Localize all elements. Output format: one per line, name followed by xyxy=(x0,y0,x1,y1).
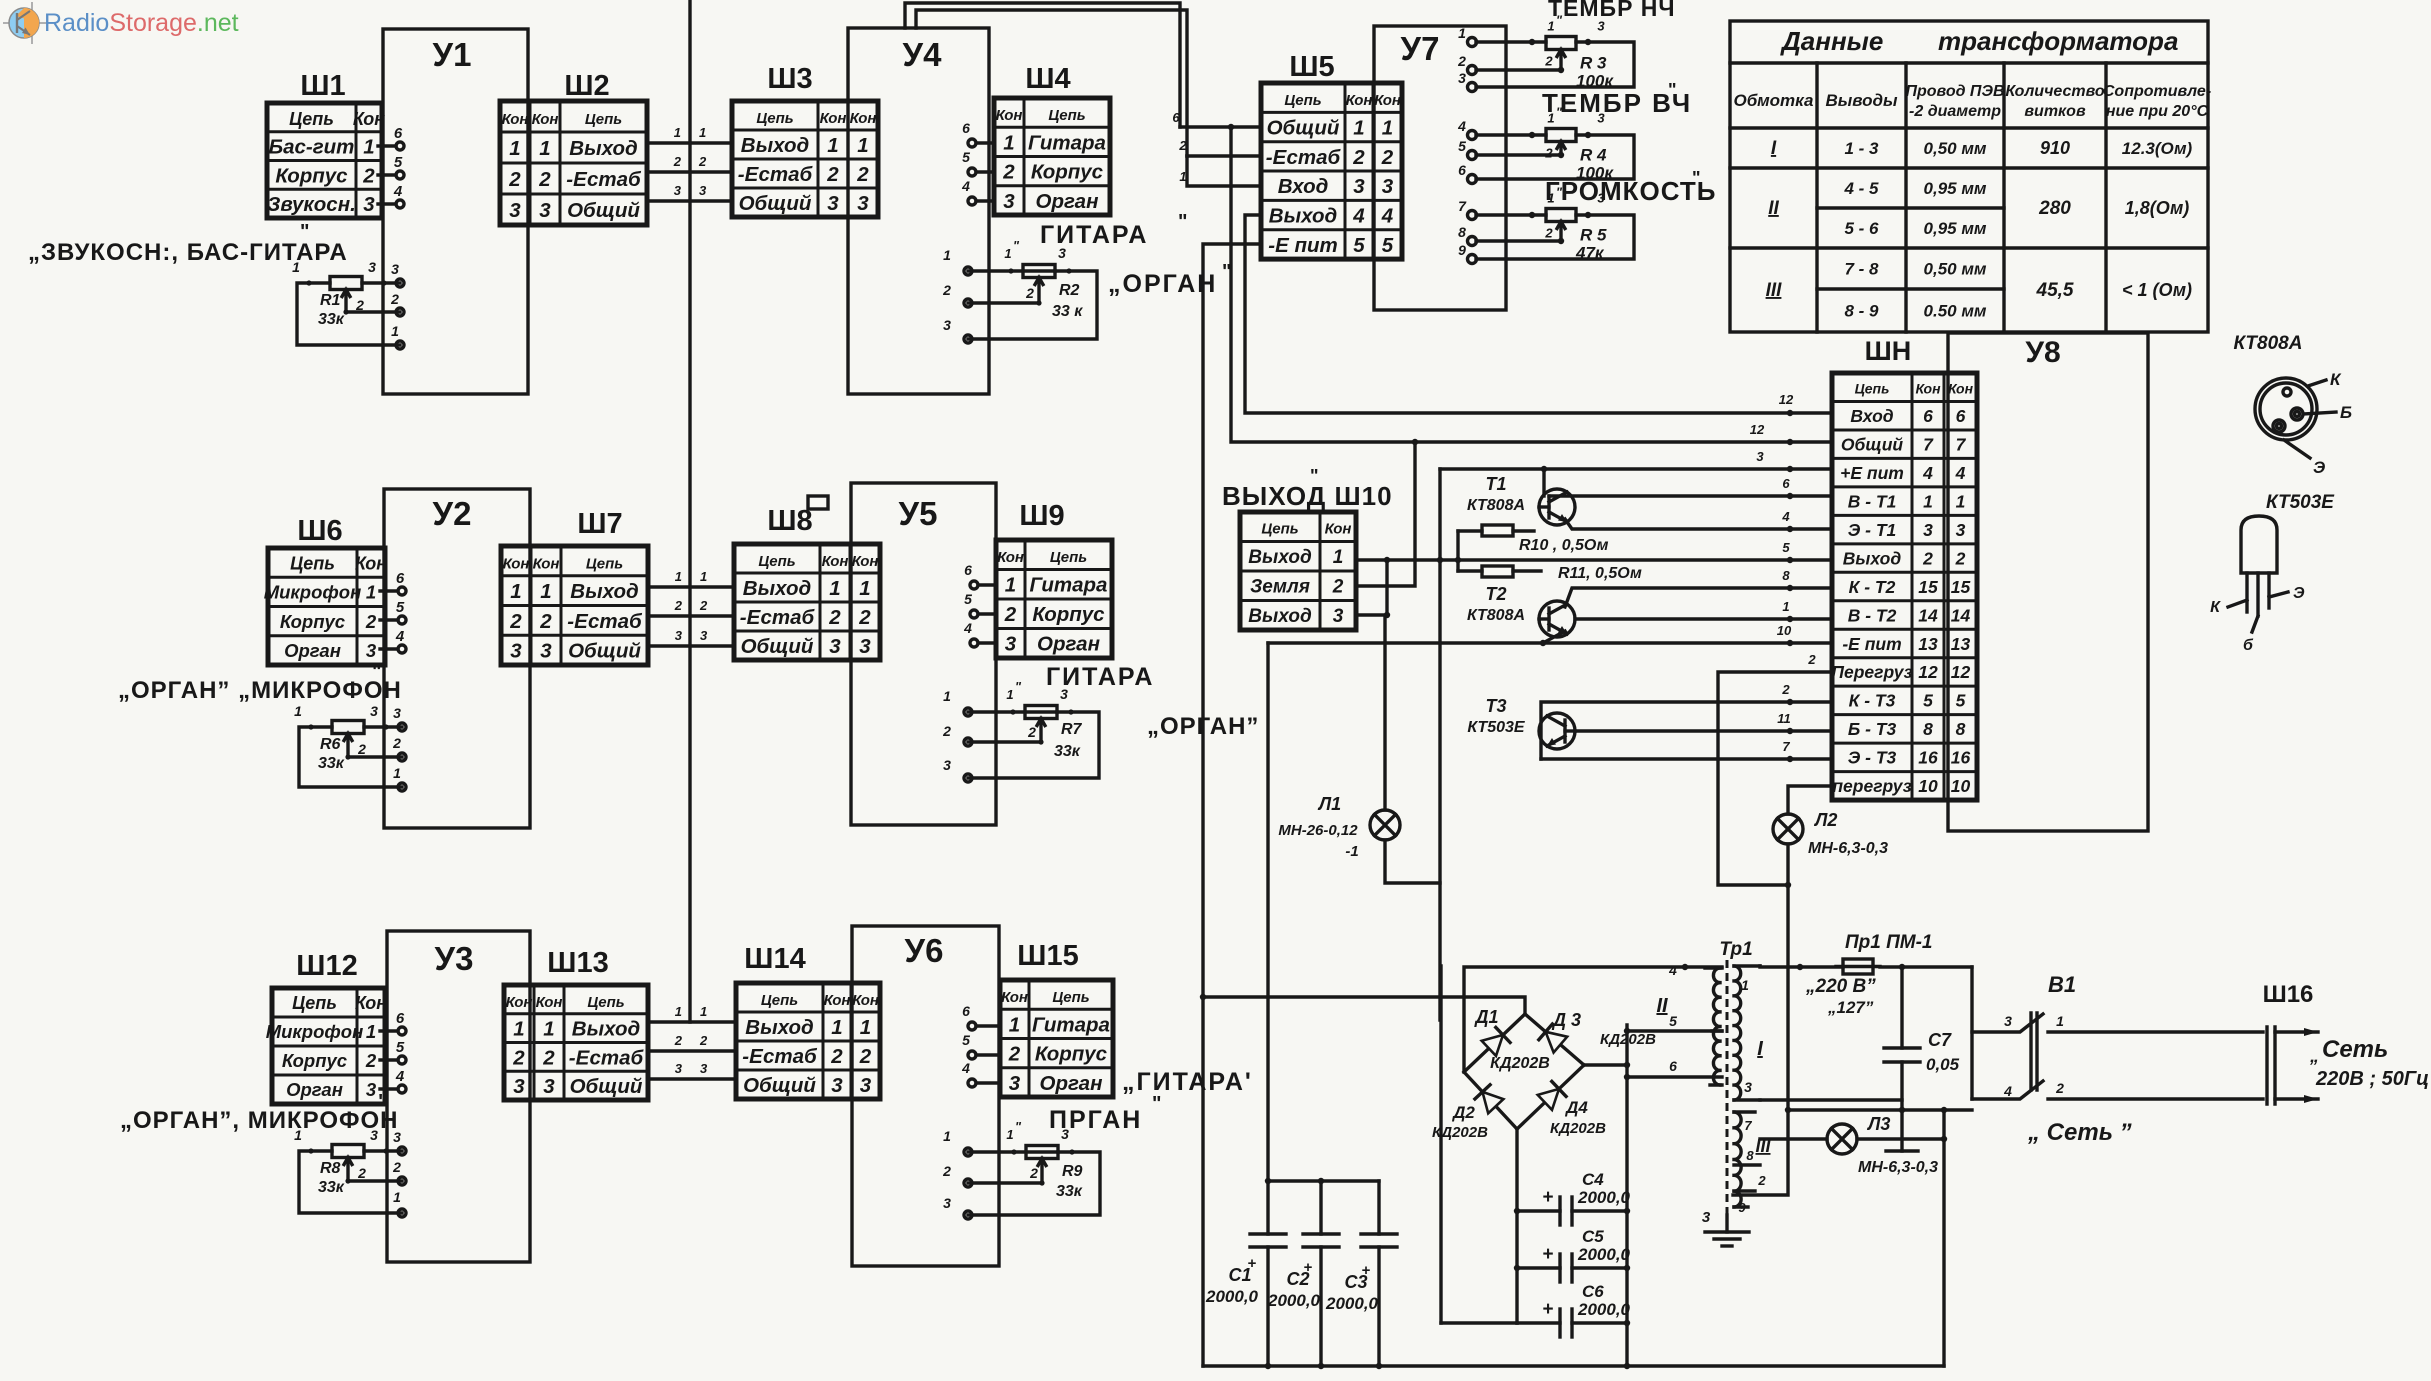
svg-text:2000,0: 2000,0 xyxy=(1205,1287,1259,1306)
svg-text:7: 7 xyxy=(1744,1118,1752,1133)
svg-text:7: 7 xyxy=(1923,435,1934,455)
label Set 220V 50Hz xyxy=(2309,1036,2429,1090)
wire Sh7-Sh8 row2 xyxy=(648,598,734,616)
svg-text:Кон: Кон xyxy=(502,111,529,128)
svg-text:1: 1 xyxy=(857,134,868,157)
svg-text:Цепь: Цепь xyxy=(756,110,793,127)
transformer taps right xyxy=(1734,966,1766,1215)
svg-text:1: 1 xyxy=(1782,599,1789,614)
svg-text:2: 2 xyxy=(2055,1080,2064,1096)
svg-text:1: 1 xyxy=(294,703,302,719)
svg-text:Цепь: Цепь xyxy=(758,553,795,570)
svg-text:1: 1 xyxy=(1547,111,1554,126)
svg-text:2: 2 xyxy=(365,1050,377,1071)
svg-text:910: 910 xyxy=(2040,138,2070,158)
svg-text:0,05: 0,05 xyxy=(1926,1055,1960,1074)
label T2 xyxy=(1467,584,1525,624)
svg-text:Общий: Общий xyxy=(570,1075,643,1098)
svg-text:Вход: Вход xyxy=(1850,406,1893,426)
svg-text:2: 2 xyxy=(357,1165,366,1181)
svg-text:4: 4 xyxy=(1457,118,1466,134)
svg-text:Кон: Кон xyxy=(1325,521,1352,538)
svg-text:Ш6: Ш6 xyxy=(297,515,342,547)
svg-text:R11, 0,5Ом: R11, 0,5Ом xyxy=(1558,565,1642,582)
svg-text:Выход: Выход xyxy=(569,137,637,160)
svg-text:1: 1 xyxy=(1353,116,1364,139)
svg-text:У6: У6 xyxy=(905,932,944,969)
svg-text:8: 8 xyxy=(1746,1148,1754,1163)
connector table Sh15 xyxy=(1000,980,1113,1097)
svg-text:С5: С5 xyxy=(1582,1227,1604,1246)
svg-text:-Естаб: -Естаб xyxy=(569,1046,645,1069)
svg-text:": " xyxy=(1015,1119,1022,1134)
svg-text:Э - Т3: Э - Т3 xyxy=(1848,748,1897,768)
svg-text:КТ503Е: КТ503Е xyxy=(1467,719,1526,736)
svg-text:2: 2 xyxy=(942,1163,951,1179)
svg-text:R10 , 0,5Ом: R10 , 0,5Ом xyxy=(1519,537,1609,554)
svg-text:Кон: Кон xyxy=(1915,381,1941,397)
label Sh3 xyxy=(767,63,812,95)
svg-text:45,5: 45,5 xyxy=(2036,280,2074,301)
svg-text:8: 8 xyxy=(1956,719,1966,739)
svg-text:1: 1 xyxy=(366,1021,376,1042)
svg-text:R6: R6 xyxy=(320,736,341,753)
svg-text:трансформатора: трансформатора xyxy=(1938,26,2178,56)
svg-text:0,50 мм: 0,50 мм xyxy=(1924,260,1987,279)
label ORGAN MIKROFON bottom xyxy=(120,1091,399,1134)
svg-text:ГИТАРА: ГИТАРА xyxy=(1046,663,1154,691)
svg-text:2: 2 xyxy=(1922,548,1933,568)
svg-text:1: 1 xyxy=(393,1189,401,1205)
wire to transformer pin5 xyxy=(1624,1013,1722,1034)
R2 pin circles xyxy=(964,267,972,343)
labels KT503E xyxy=(2210,492,2335,654)
svg-text:6: 6 xyxy=(1458,162,1466,178)
label ORGAN mid xyxy=(1147,713,1259,740)
svg-text:1: 1 xyxy=(366,582,376,603)
potentiometer R5 xyxy=(1458,185,1634,264)
svg-text:4: 4 xyxy=(1955,463,1966,483)
svg-text:5: 5 xyxy=(962,149,970,165)
R8 pin circles xyxy=(398,1147,406,1217)
svg-text:3: 3 xyxy=(1756,449,1764,464)
svg-text:R 5: R 5 xyxy=(1580,226,1607,245)
svg-text:R2: R2 xyxy=(1059,282,1080,299)
wire switch to Sh16 pin1 xyxy=(2048,1013,2263,1032)
svg-text:Э: Э xyxy=(2293,585,2305,602)
svg-text:Ш9: Ш9 xyxy=(1019,500,1064,532)
R6 labels xyxy=(294,703,401,781)
label U2 xyxy=(433,495,472,532)
R7 labels xyxy=(942,679,1082,773)
transformer center tap ground xyxy=(1702,1209,1749,1246)
label Sh11 xyxy=(1865,336,1912,366)
wire Sh5 vyhod to U8 vhod xyxy=(1245,215,1832,416)
svg-text:8: 8 xyxy=(1782,568,1790,583)
svg-text:Корпус: Корпус xyxy=(1031,161,1104,184)
svg-text:„ОРГАН”, МИКРОФОН: „ОРГАН”, МИКРОФОН xyxy=(120,1107,399,1134)
U3 input pins 6 5 4 xyxy=(380,1010,406,1093)
wire bridge bottom down xyxy=(1514,1129,1520,1323)
svg-text:+: + xyxy=(1542,1187,1553,1208)
svg-text:Орган: Орган xyxy=(1037,633,1100,656)
svg-text:2: 2 xyxy=(538,168,551,191)
svg-text:2: 2 xyxy=(859,1045,872,1068)
svg-text:Д4: Д4 xyxy=(1564,1098,1588,1117)
svg-text:4: 4 xyxy=(1381,205,1394,228)
svg-text:КД202В: КД202В xyxy=(1490,1055,1550,1072)
svg-text:3: 3 xyxy=(513,1075,525,1098)
fuse Pr1 xyxy=(1836,959,1880,974)
label Sh6 xyxy=(297,515,342,547)
svg-text:2: 2 xyxy=(674,1033,683,1048)
svg-text:5: 5 xyxy=(1353,234,1365,257)
svg-text:< 1 (Ом): < 1 (Ом) xyxy=(2122,280,2192,300)
svg-text:„ГИТАРА': „ГИТАРА' xyxy=(1122,1068,1253,1096)
svg-text:8: 8 xyxy=(1458,224,1466,240)
svg-text:1: 1 xyxy=(943,688,951,704)
svg-text:15: 15 xyxy=(1951,577,1971,597)
svg-text:Микрофон: Микрофон xyxy=(264,582,362,603)
svg-text:Б - Т3: Б - Т3 xyxy=(1848,719,1897,739)
wire tap1 to fuse xyxy=(1760,964,1843,970)
svg-text:1: 1 xyxy=(831,1016,842,1039)
svg-text:Цепь: Цепь xyxy=(290,553,335,573)
svg-text:-Е пит: -Е пит xyxy=(1842,634,1901,654)
svg-text:4 - 5: 4 - 5 xyxy=(1843,179,1879,198)
svg-text:Сопротивле-: Сопротивле- xyxy=(2103,83,2211,100)
svg-text:Кон: Кон xyxy=(1374,92,1401,109)
capacitor C3 xyxy=(1361,1181,1397,1366)
svg-text:Ш12: Ш12 xyxy=(296,950,357,982)
vertical wire to bottom rail xyxy=(1942,1110,1945,1366)
svg-text:Т1: Т1 xyxy=(1485,474,1506,494)
label KD202V center xyxy=(1490,1055,1550,1072)
ground bottom rail xyxy=(1203,1363,1944,1369)
potentiometer R2 xyxy=(968,265,1097,340)
svg-text:Общий: Общий xyxy=(568,640,641,663)
svg-text:2: 2 xyxy=(858,606,871,629)
svg-text:Выход: Выход xyxy=(743,577,811,600)
svg-text:Выводы: Выводы xyxy=(1825,91,1898,110)
svg-text:3: 3 xyxy=(1597,191,1605,206)
svg-text:5: 5 xyxy=(1382,234,1394,257)
svg-text:Л3: Л3 xyxy=(1866,1114,1890,1134)
svg-text:2: 2 xyxy=(1332,577,1344,598)
svg-text:0.50 мм: 0.50 мм xyxy=(1924,302,1987,321)
svg-text:1: 1 xyxy=(829,577,840,600)
wire minus Epit long xyxy=(1268,623,1832,1181)
svg-text:Орган: Орган xyxy=(284,640,341,661)
svg-text:Выход: Выход xyxy=(1248,606,1312,627)
connector table Sh9 xyxy=(996,540,1112,658)
wire to transformer pin6 xyxy=(1624,1058,1722,1080)
potentiometer R4 xyxy=(1457,105,1634,184)
label Sh4 xyxy=(1025,63,1070,95)
svg-text:": " xyxy=(1692,168,1701,188)
svg-text:Кон: Кон xyxy=(1001,989,1028,1006)
svg-text:2000,0: 2000,0 xyxy=(1577,1300,1631,1319)
wire Sh7-Sh8 row1 xyxy=(648,569,734,587)
svg-text:2: 2 xyxy=(512,1046,525,1069)
vertical bus wire xyxy=(688,0,691,1022)
label winding III xyxy=(1755,1136,1771,1156)
svg-text:В - Т1: В - Т1 xyxy=(1848,491,1897,511)
svg-text:5 - 6: 5 - 6 xyxy=(1844,219,1879,238)
wire fuse to right xyxy=(1880,964,1972,970)
svg-text:Кон: Кон xyxy=(506,994,533,1011)
label Sh15 xyxy=(1017,940,1078,972)
svg-text:Ш2: Ш2 xyxy=(564,70,609,102)
diode D2 xyxy=(1464,1072,1517,1129)
potentiometer R6 xyxy=(299,721,402,788)
svg-text:Л1: Л1 xyxy=(1317,794,1341,814)
svg-text:3: 3 xyxy=(540,640,552,663)
labels C1 C2 C3 xyxy=(1205,1255,1379,1313)
amplifier block U1 xyxy=(383,29,528,394)
capacitor C7 xyxy=(1884,1030,1960,1074)
svg-text:3: 3 xyxy=(1005,633,1017,656)
svg-text:1: 1 xyxy=(674,125,681,140)
svg-text:1: 1 xyxy=(1741,977,1749,993)
wire Sh7-Sh8 row3 xyxy=(648,628,734,646)
svg-text:-Естаб: -Естаб xyxy=(740,606,816,629)
svg-text:6: 6 xyxy=(1669,1058,1677,1074)
svg-text:ШН: ШН xyxy=(1865,336,1912,366)
svg-text:6: 6 xyxy=(962,1003,970,1019)
svg-text:3: 3 xyxy=(831,1074,843,1097)
svg-text:1: 1 xyxy=(393,765,401,781)
svg-text:К - Т2: К - Т2 xyxy=(1849,577,1896,597)
svg-text:Ш5: Ш5 xyxy=(1289,51,1334,83)
svg-text:3: 3 xyxy=(829,635,841,658)
svg-text:Бас-гит: Бас-гит xyxy=(269,136,355,159)
svg-text:Д2: Д2 xyxy=(1451,1103,1475,1122)
svg-text:2: 2 xyxy=(542,1046,555,1069)
wire C7 branch xyxy=(1899,967,1905,1151)
svg-text:Кон: Кон xyxy=(503,555,530,572)
svg-text:3: 3 xyxy=(1003,190,1015,213)
svg-text:2: 2 xyxy=(508,168,521,191)
svg-text:5: 5 xyxy=(1458,138,1466,154)
svg-text:3: 3 xyxy=(859,635,871,658)
connector table Sh6 xyxy=(264,548,388,665)
svg-text:2: 2 xyxy=(856,163,869,186)
label Sh7 xyxy=(577,508,622,540)
svg-text:Цепь: Цепь xyxy=(1284,92,1321,109)
svg-text:3: 3 xyxy=(1597,111,1605,126)
label L2 xyxy=(1808,810,1888,857)
svg-text:3: 3 xyxy=(700,628,708,643)
svg-text:Выход: Выход xyxy=(741,134,809,157)
svg-text:III: III xyxy=(1766,280,1783,301)
svg-text:Кон: Кон xyxy=(824,992,851,1009)
svg-text:R1: R1 xyxy=(320,292,341,309)
wire T2 emitter xyxy=(1543,631,1565,643)
svg-text:1: 1 xyxy=(540,580,551,603)
svg-text:В - Т2: В - Т2 xyxy=(1848,605,1897,625)
potentiometer R8 xyxy=(299,1145,402,1214)
svg-text:Пр1 ПМ-1: Пр1 ПМ-1 xyxy=(1845,932,1933,953)
label U7 xyxy=(1401,30,1440,67)
svg-text:-2 диаметр: -2 диаметр xyxy=(1909,103,2001,120)
svg-text:2: 2 xyxy=(942,723,951,739)
svg-text:2: 2 xyxy=(1004,603,1017,626)
svg-text:14: 14 xyxy=(1951,605,1971,625)
svg-text:2: 2 xyxy=(1544,146,1553,161)
amplifier block U2 xyxy=(384,489,530,828)
svg-text:ние при 20°С: ние при 20°С xyxy=(2106,103,2209,120)
svg-text:3: 3 xyxy=(1597,19,1605,34)
svg-text:2: 2 xyxy=(1027,724,1036,740)
label D1 xyxy=(1473,1007,1498,1027)
svg-text:Количество: Количество xyxy=(2005,83,2105,100)
svg-text:5: 5 xyxy=(1923,691,1933,711)
svg-text:Кон: Кон xyxy=(355,993,387,1013)
U5 output pins 6 5 4 xyxy=(963,562,996,647)
svg-text:3: 3 xyxy=(674,183,682,198)
svg-text:Общий: Общий xyxy=(1267,116,1340,139)
svg-text:1: 1 xyxy=(1547,191,1554,206)
RadioStorage.net logo icon xyxy=(3,2,48,44)
svg-text:2: 2 xyxy=(673,154,682,169)
wire caps top rail xyxy=(1265,1178,1379,1184)
svg-text:Ш13: Ш13 xyxy=(547,947,608,979)
svg-text:5: 5 xyxy=(396,1039,405,1056)
connector table Sh5 xyxy=(1261,83,1402,259)
svg-text:2: 2 xyxy=(1025,285,1034,301)
svg-text:2: 2 xyxy=(357,741,366,757)
wire T1 base to B-T1 xyxy=(1549,476,1832,499)
svg-text:Б: Б xyxy=(2340,403,2352,422)
svg-text:6: 6 xyxy=(1956,406,1966,426)
svg-text:5: 5 xyxy=(394,154,403,171)
svg-text:33к: 33к xyxy=(318,1179,345,1196)
svg-text:+Е пит: +Е пит xyxy=(1840,463,1904,483)
svg-text:3: 3 xyxy=(393,705,401,721)
svg-text:У8: У8 xyxy=(2025,336,2060,369)
svg-text:R 4: R 4 xyxy=(1580,146,1607,165)
svg-text:10: 10 xyxy=(1918,776,1938,796)
svg-text:Перегруз: Перегруз xyxy=(1831,662,1912,682)
svg-text:Цепь: Цепь xyxy=(292,993,337,1013)
transistor T3 xyxy=(1539,713,1575,749)
svg-text:Ш16: Ш16 xyxy=(2263,981,2314,1008)
svg-text:2: 2 xyxy=(674,598,683,613)
svg-text:3: 3 xyxy=(1956,520,1966,540)
connector table Sh12 xyxy=(266,988,388,1104)
svg-text:1: 1 xyxy=(510,580,521,603)
svg-text:9: 9 xyxy=(1738,1200,1746,1215)
svg-text:Гитара: Гитара xyxy=(1028,131,1106,154)
svg-text:2000,0: 2000,0 xyxy=(1267,1291,1321,1310)
svg-text:0,50 мм: 0,50 мм xyxy=(1924,139,1987,158)
svg-text:Кон: Кон xyxy=(852,553,879,570)
diode D1 xyxy=(1464,1014,1525,1072)
svg-text:Кон: Кон xyxy=(852,992,879,1009)
svg-text:2: 2 xyxy=(699,1033,708,1048)
transformer Tr1 windings xyxy=(1705,960,1741,1215)
label winding II xyxy=(1656,995,1668,1017)
svg-text:Ш3: Ш3 xyxy=(767,63,812,95)
svg-text:Орган: Орган xyxy=(1036,190,1099,213)
svg-text:перегруз: перегруз xyxy=(1832,776,1911,796)
svg-text:ГИТАРА: ГИТАРА xyxy=(1040,221,1148,249)
svg-text:4: 4 xyxy=(963,620,972,636)
svg-text:3: 3 xyxy=(1333,606,1344,627)
connector table Sh8 xyxy=(734,544,880,660)
label U1 xyxy=(433,36,472,73)
svg-text:Кон: Кон xyxy=(997,549,1024,566)
svg-text:МН-6,3-0,3: МН-6,3-0,3 xyxy=(1858,1159,1938,1176)
svg-text:Кон: Кон xyxy=(1948,381,1974,397)
amplifier block U6 xyxy=(852,926,999,1266)
capacitor C5 xyxy=(1517,1227,1631,1282)
svg-text:1: 1 xyxy=(1458,25,1466,41)
svg-text:4: 4 xyxy=(1922,463,1933,483)
svg-text:1: 1 xyxy=(943,247,951,263)
label GITARA mid xyxy=(1046,663,1154,691)
label Tr1 xyxy=(1719,939,1752,960)
svg-text:I: I xyxy=(1757,1038,1763,1060)
svg-text:КТ808А: КТ808А xyxy=(1467,497,1525,514)
svg-text:1: 1 xyxy=(1333,547,1344,568)
label D4 xyxy=(1550,1098,1606,1137)
svg-text:4: 4 xyxy=(961,1060,970,1076)
svg-text:У1: У1 xyxy=(433,36,472,73)
svg-text:3: 3 xyxy=(1009,1072,1021,1095)
svg-text:": " xyxy=(1556,13,1563,28)
svg-text:+: + xyxy=(1362,1262,1371,1279)
svg-text:7: 7 xyxy=(1458,198,1467,214)
wire Sh2-Sh3 row3 xyxy=(647,183,732,201)
wire T3 collector to K-T3 xyxy=(1541,682,1832,759)
svg-text:33к: 33к xyxy=(1056,1183,1083,1200)
wire peregruz row12 xyxy=(1718,652,1832,888)
svg-text:Выход: Выход xyxy=(572,1018,640,1041)
vertical bus right of bridge xyxy=(1624,1025,1630,1369)
svg-text:1: 1 xyxy=(1956,491,1966,511)
svg-text:-Естаб: -Естаб xyxy=(1266,146,1342,169)
svg-text:„ОРГАН” „МИКРОФОН: „ОРГАН” „МИКРОФОН xyxy=(118,677,402,704)
capacitor C1 xyxy=(1250,1181,1286,1366)
svg-text:Ш1: Ш1 xyxy=(300,70,345,102)
svg-text:КТ503Е: КТ503Е xyxy=(2266,492,2335,513)
svg-text:Корпус: Корпус xyxy=(1032,603,1105,626)
R6 pin circles xyxy=(398,723,406,791)
svg-text:„ОРГАН: „ОРГАН xyxy=(1108,270,1217,298)
svg-text:2: 2 xyxy=(1008,1043,1021,1066)
label V1 xyxy=(2048,972,2076,997)
connector table Sh4 xyxy=(994,98,1110,215)
svg-text:16: 16 xyxy=(1951,748,1971,768)
svg-text:2: 2 xyxy=(942,282,951,298)
svg-text:3: 3 xyxy=(1458,70,1466,86)
svg-text:-Естаб: -Естаб xyxy=(567,610,643,633)
svg-text:Цепь: Цепь xyxy=(1261,521,1298,538)
wire Sh16 out arrows xyxy=(2275,1028,2318,1103)
svg-text:Кон: Кон xyxy=(355,553,387,573)
svg-text:Кон: Кон xyxy=(820,110,847,127)
svg-text:Звукосн.: Звукосн. xyxy=(267,193,356,216)
svg-text:": " xyxy=(1013,238,1020,253)
svg-text:3: 3 xyxy=(943,757,951,773)
svg-text:Гитара: Гитара xyxy=(1032,1013,1110,1036)
svg-text:МН-6,3-0,3: МН-6,3-0,3 xyxy=(1808,840,1888,857)
svg-text:Кон: Кон xyxy=(1346,92,1373,109)
svg-text:0,95 мм: 0,95 мм xyxy=(1924,179,1987,198)
svg-text:7: 7 xyxy=(1956,435,1967,455)
